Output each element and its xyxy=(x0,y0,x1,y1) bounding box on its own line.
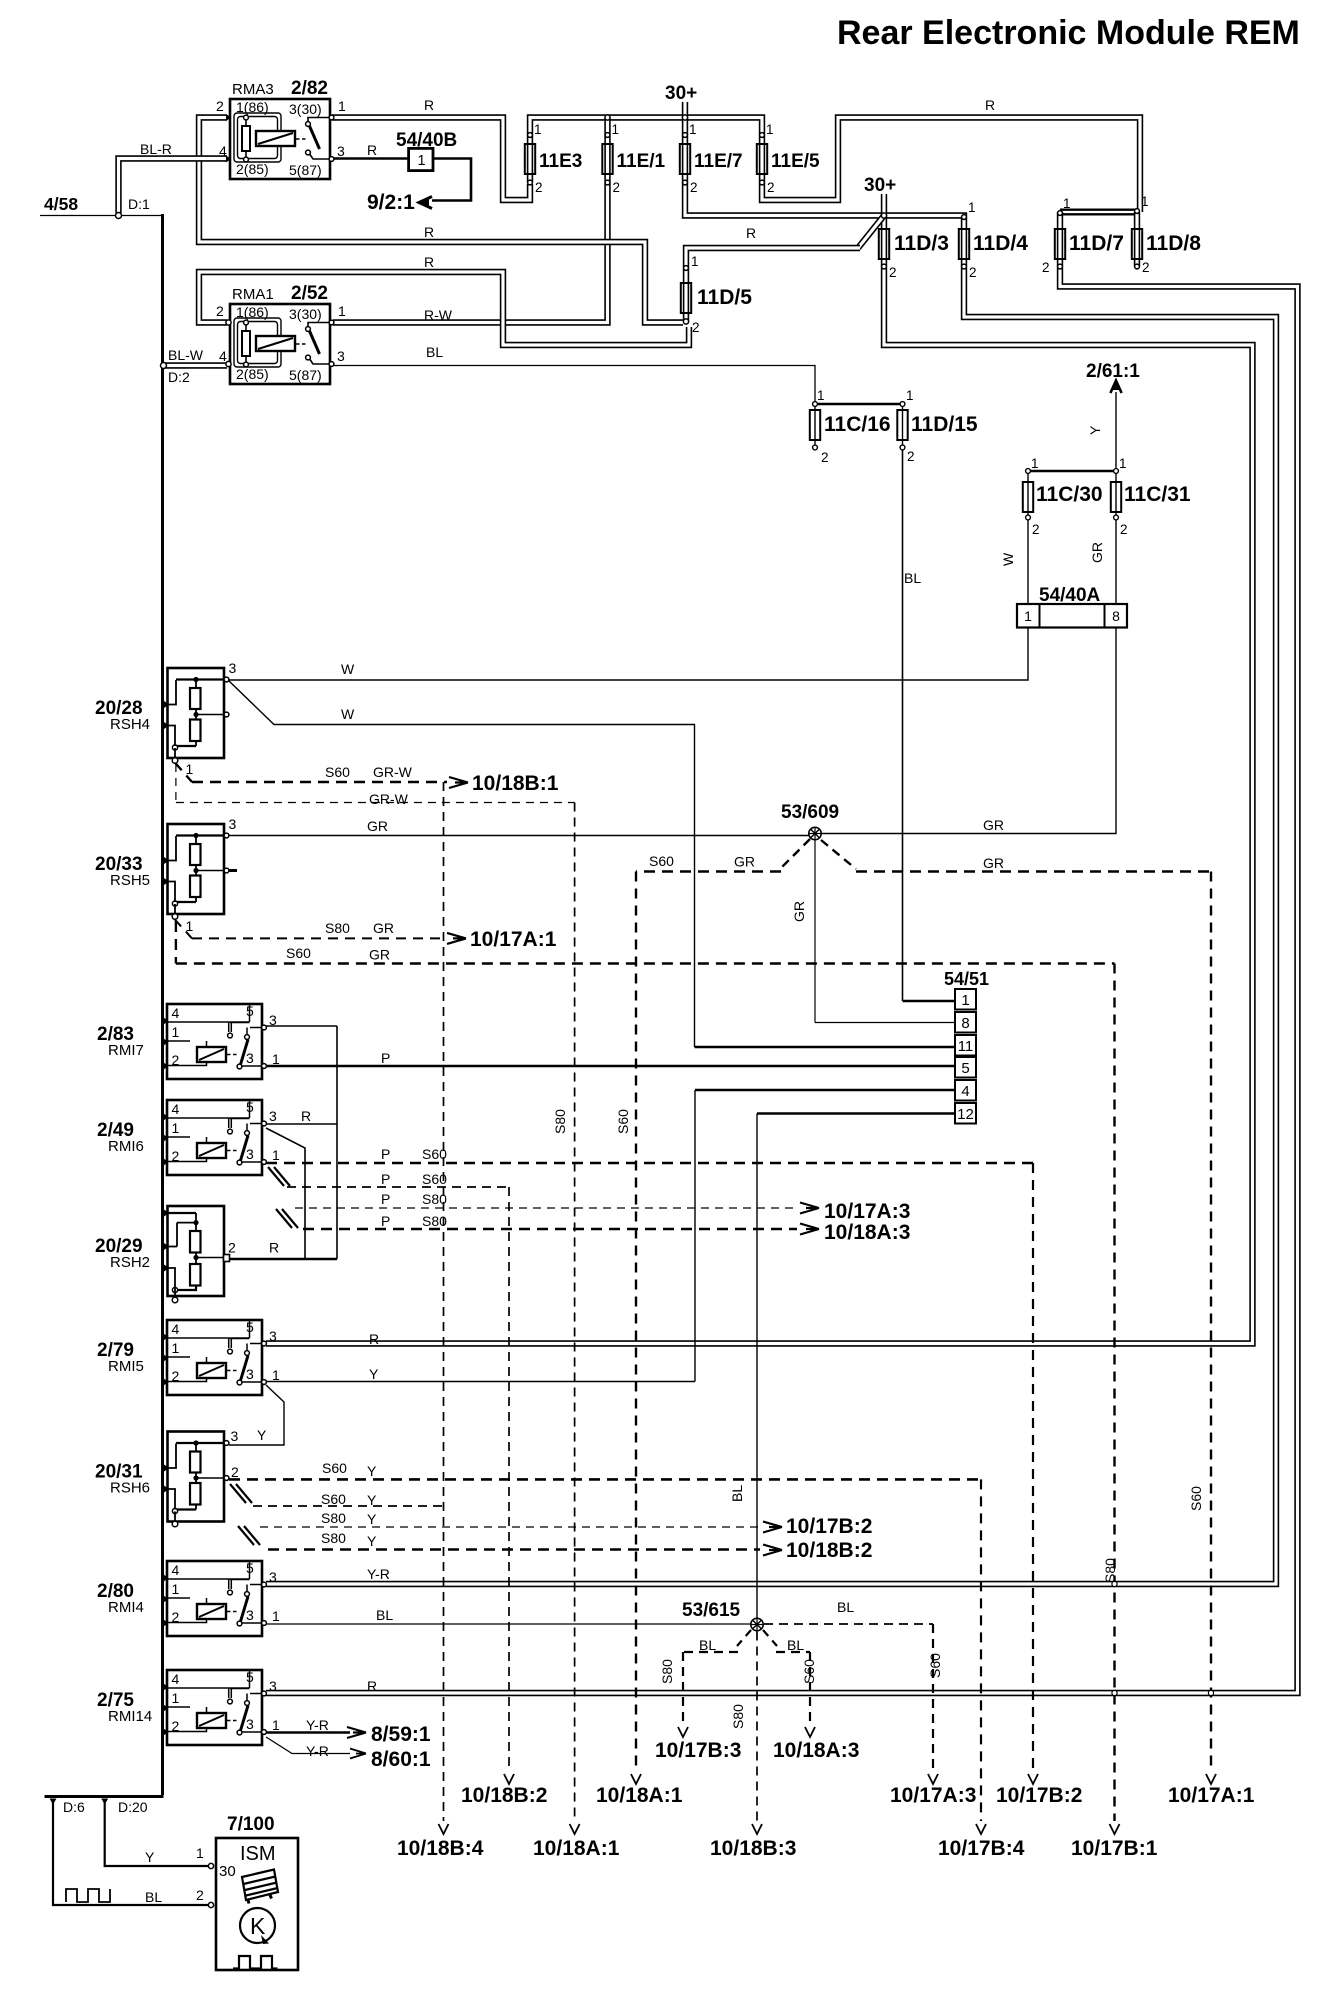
svg-text:3: 3 xyxy=(337,348,345,364)
wire stub 30+ no.2 xyxy=(881,194,887,216)
wire through fuse 11C/30 xyxy=(1027,471,1029,518)
arrow 10/18A:3 bottom xyxy=(805,1727,815,1737)
svg-text:1: 1 xyxy=(172,1581,180,1597)
svg-text:1: 1 xyxy=(338,303,346,319)
svg-text:2: 2 xyxy=(172,1368,180,1384)
svg-text:S60: S60 xyxy=(286,945,311,961)
svg-text:10/18A:1: 10/18A:1 xyxy=(596,1784,683,1807)
svg-text:1: 1 xyxy=(172,1120,180,1136)
svg-text:GR: GR xyxy=(983,817,1004,833)
svg-text:4/58: 4/58 xyxy=(44,194,78,214)
wire S60 Y dashed: switch RSH6 pin2 row to 10/17B:4 xyxy=(229,1478,981,1481)
wire W: fuse 11C/30 pin2 to connector 54/40A pin1 xyxy=(1027,520,1029,604)
svg-text:1: 1 xyxy=(968,200,976,215)
dashed vertical to 10/18A:1 bottom xyxy=(574,803,576,1822)
branch hash marks at relay 2/49 pin1 xyxy=(268,1167,284,1186)
svg-text:RSH5: RSH5 xyxy=(110,872,150,889)
branch hash marks at switch RSH6 pin2 xyxy=(230,1484,246,1503)
svg-text:2/61:1: 2/61:1 xyxy=(1086,361,1140,382)
svg-text:3: 3 xyxy=(231,1428,239,1444)
svg-text:BL: BL xyxy=(837,1599,854,1615)
svg-text:2: 2 xyxy=(535,180,543,195)
svg-text:2: 2 xyxy=(1120,522,1128,537)
svg-text:3: 3 xyxy=(246,1146,254,1162)
svg-text:RMI6: RMI6 xyxy=(108,1138,144,1155)
svg-text:11E/1: 11E/1 xyxy=(617,151,666,172)
svg-text:BL: BL xyxy=(699,1637,716,1653)
svg-text:1: 1 xyxy=(1141,194,1149,209)
junction 53/609 xyxy=(809,827,821,839)
svg-text:10/18A:1: 10/18A:1 xyxy=(533,1837,620,1860)
arrow 10/17A:1 mid xyxy=(447,933,466,944)
wire through fuse 11E/5 xyxy=(759,136,765,183)
wire R: fuse 11D/5 pin2 to relay 2/82 pin2 coil xyxy=(199,118,683,323)
wire R: fuse 11E/5 pin2 loop to fuse 11D/8 pin1 xyxy=(762,118,1140,213)
svg-text:4: 4 xyxy=(172,1321,180,1337)
dashed vertical S60 to 10/17A:3 xyxy=(932,1624,934,1771)
wire through fuse 11C/16 xyxy=(814,404,816,445)
wire: connector 54/40B pin1 to 9/2:1 xyxy=(432,159,471,201)
svg-text:54/51: 54/51 xyxy=(944,969,989,989)
svg-text:1: 1 xyxy=(1063,196,1071,211)
node D:20 xyxy=(101,1799,108,1805)
wire BL-R: module 4/58 D:1 to relay 2/82 pin4 xyxy=(119,159,228,214)
svg-text:1: 1 xyxy=(172,1024,180,1040)
wire 30+ bus feeding fuses 11E3 11E/1 11E/7 11E/5 xyxy=(530,118,762,137)
svg-text:4: 4 xyxy=(172,1562,180,1578)
dashed vertical S60 to 10/18A:1 xyxy=(635,872,637,1772)
wire P S80 dashed: relay 2/49 row4 to 10/18A:3 xyxy=(303,1228,797,1231)
svg-text:S80: S80 xyxy=(422,1213,447,1229)
wire GR dashed: junction 53/609 right branch to 10/17A:1 xyxy=(821,840,856,869)
svg-text:RMI5: RMI5 xyxy=(108,1358,144,1375)
wire stub 30+ no.1 xyxy=(682,102,688,118)
svg-text:3(30): 3(30) xyxy=(289,101,322,117)
wire stub 11E/7 pin1 to bus xyxy=(682,118,688,137)
svg-text:P: P xyxy=(381,1213,390,1229)
module ISM 7/100 xyxy=(216,1838,298,1970)
wire P: relay 2/83 pin1 to connector 54/51 pin5 xyxy=(266,1065,955,1068)
svg-text:S80: S80 xyxy=(552,1109,568,1134)
dashed vertical S80 to 10/17B:1 xyxy=(1113,964,1115,1822)
ISM K symbol xyxy=(240,1908,275,1943)
svg-text:3: 3 xyxy=(269,1012,277,1028)
ISM bus icon xyxy=(242,1870,278,1904)
node D:6 xyxy=(52,1799,54,1801)
svg-text:4: 4 xyxy=(219,348,227,364)
svg-text:GR-W: GR-W xyxy=(369,791,409,807)
wire S60 GR dashed: junction 53/609 left branch xyxy=(781,839,810,868)
svg-text:8/60:1: 8/60:1 xyxy=(371,1748,431,1771)
wire: module 4/58 line at D:1 xyxy=(40,215,163,217)
svg-text:3: 3 xyxy=(246,1366,254,1382)
svg-text:2: 2 xyxy=(231,1464,239,1480)
svg-text:10/17B:3: 10/17B:3 xyxy=(655,1739,741,1762)
ISM square wave symbol xyxy=(233,1956,278,1969)
svg-text:3: 3 xyxy=(246,1607,254,1623)
svg-text:R: R xyxy=(369,1331,379,1347)
svg-text:BL: BL xyxy=(787,1637,804,1653)
square wave symbol on BL wire xyxy=(66,1889,110,1902)
svg-text:8/59:1: 8/59:1 xyxy=(371,1723,431,1746)
svg-text:5: 5 xyxy=(961,1060,969,1077)
svg-text:3: 3 xyxy=(269,1108,277,1124)
svg-text:R: R xyxy=(424,97,434,113)
fuse 11D/3 xyxy=(879,229,889,259)
svg-text:2(85): 2(85) xyxy=(236,161,269,177)
svg-text:10/17A:1: 10/17A:1 xyxy=(470,928,557,951)
wire R: fuse 11D/3 pin2 to relay 2/79 pin3 xyxy=(266,267,1253,1344)
wire bus 11C/16 pin1 - 11D/15 pin1 xyxy=(815,403,903,406)
svg-text:2/52: 2/52 xyxy=(291,283,328,304)
dashed vertical S60 to 10/18A:3 xyxy=(809,1652,811,1724)
svg-text:Y: Y xyxy=(367,1492,377,1508)
wire through fuse 11C/31 xyxy=(1115,471,1117,518)
wire through fuse 11D/8 xyxy=(1134,212,1140,267)
svg-text:1: 1 xyxy=(1031,456,1039,471)
svg-text:S60: S60 xyxy=(1188,1486,1204,1511)
svg-text:11D/8: 11D/8 xyxy=(1146,232,1201,255)
svg-text:Rear Electronic Module REM: Rear Electronic Module REM xyxy=(837,14,1300,52)
node D:1 xyxy=(116,213,122,219)
svg-text:P: P xyxy=(381,1146,390,1162)
svg-text:S80: S80 xyxy=(1102,1558,1118,1583)
wire through fuse 11E3 xyxy=(527,136,533,183)
svg-text:2/82: 2/82 xyxy=(291,78,328,99)
svg-text:11: 11 xyxy=(958,1038,974,1055)
wire BL: connector 54/51 pin12 down to junction 53/615 xyxy=(756,1114,758,1619)
wire BL dashed: junction 53/615 left to 10/17B:3 xyxy=(737,1630,751,1646)
svg-text:RMI4: RMI4 xyxy=(108,1599,144,1616)
wire through fuse 11D/3 xyxy=(881,216,887,267)
svg-text:3: 3 xyxy=(229,816,237,832)
wire P S80 dashed: relay 2/49 row3 to 10/17A:3 xyxy=(295,1207,797,1209)
wire S60 GR dashed: switch RSH5 to 10/17B:1 xyxy=(175,921,177,964)
svg-text:BL: BL xyxy=(904,570,921,586)
svg-text:R: R xyxy=(985,97,995,113)
svg-text:1: 1 xyxy=(272,1608,280,1624)
relay 2/52 RMA1 xyxy=(230,304,330,384)
svg-text:S80: S80 xyxy=(325,920,350,936)
svg-text:R-W: R-W xyxy=(424,307,453,323)
wire Y: 2/61:1 to fuse bus 11C/30 11C/31 xyxy=(1115,392,1117,471)
svg-text:5: 5 xyxy=(246,1560,254,1576)
svg-text:10/18B:4: 10/18B:4 xyxy=(397,1837,484,1860)
svg-text:1: 1 xyxy=(817,388,825,403)
svg-text:10/18A:3: 10/18A:3 xyxy=(824,1221,910,1244)
wire GR: switch RSH5 pin3 to junction 53/609 xyxy=(229,835,809,837)
arrow 8/59:1 xyxy=(347,1727,366,1738)
fuse 11E/1 xyxy=(602,144,612,174)
wire: fuse 11E/7 pin2 to 30+ junction and fuse 11D/4 pin1 xyxy=(685,183,964,230)
svg-text:10/17B:1: 10/17B:1 xyxy=(1071,1837,1158,1860)
wire Y-R: relay 2/75 pin1 to 8/59:1 xyxy=(266,1731,350,1734)
wire through fuse 11D/15 xyxy=(902,404,904,445)
dashed vertical to 10/17B:2 bottom xyxy=(1032,1163,1034,1771)
svg-text:1: 1 xyxy=(906,388,914,403)
svg-text:GR: GR xyxy=(734,854,755,870)
svg-text:53/609: 53/609 xyxy=(781,802,839,823)
svg-text:2: 2 xyxy=(767,180,775,195)
svg-text:1: 1 xyxy=(186,918,194,934)
svg-text:Y: Y xyxy=(145,1849,155,1865)
svg-text:5: 5 xyxy=(246,1669,254,1685)
svg-text:D:20: D:20 xyxy=(118,1799,148,1815)
relay 2/83 RMI7 xyxy=(167,1004,262,1079)
arrow 10/17A:3 mid xyxy=(800,1203,819,1214)
fuse 11C/16 xyxy=(810,410,820,440)
arrow 2/61:1 xyxy=(1110,381,1121,394)
svg-text:5: 5 xyxy=(246,1319,254,1335)
arrow 8/60:1 xyxy=(350,1749,366,1759)
svg-text:11C/31: 11C/31 xyxy=(1124,483,1191,506)
svg-text:S60: S60 xyxy=(615,1109,631,1134)
svg-text:S60: S60 xyxy=(321,1491,346,1507)
wire S80 Y dashed: RSH6 row4 to 10/18B:2 xyxy=(268,1548,760,1551)
svg-text:2: 2 xyxy=(1032,522,1040,537)
switch 20/28 RSH4 xyxy=(168,668,225,758)
junction crossing dots xyxy=(1112,1581,1117,1586)
svg-text:1(86): 1(86) xyxy=(236,304,269,320)
wire BL: relay 2/52 pin3 to fuse 11C/16 pin1 xyxy=(333,366,815,403)
wire bus 11D/7 pin1 - 11D/8 pin1 xyxy=(1060,209,1137,216)
svg-text:11D/5: 11D/5 xyxy=(697,286,752,309)
svg-text:3: 3 xyxy=(337,143,345,159)
svg-text:11D/15: 11D/15 xyxy=(911,413,978,436)
svg-text:1: 1 xyxy=(272,1717,280,1733)
wire GR-W dashed: RSH4 to 10/18A:1 drop xyxy=(175,764,177,803)
wire BL: relay 2/80 pin1 to junction 53/615 xyxy=(266,1623,751,1625)
svg-text:K: K xyxy=(250,1913,266,1939)
switch 20/31 RSH6 xyxy=(168,1432,225,1522)
svg-text:2: 2 xyxy=(172,1718,180,1734)
svg-text:2: 2 xyxy=(889,265,897,280)
svg-text:12: 12 xyxy=(957,1106,974,1123)
wire GR: fuse 11C/31 pin2 to connector 54/40A pin8 xyxy=(1115,520,1117,604)
svg-text:3: 3 xyxy=(269,1569,277,1585)
wire BL S60 dashed: junction 53/615 to 10/17A:3 xyxy=(764,1623,933,1625)
wire: connector 54/51 pin4 down to Y wire xyxy=(695,1089,955,1092)
wire through fuse 11D/7 xyxy=(1057,212,1063,267)
relay 2/82 RMA3 xyxy=(230,99,330,179)
wire S80 GR dashed: switch RSH5 pin1 to 10/17A:1 xyxy=(174,919,192,938)
wire GR: connector 54/40A pin8 to junction 53/609 xyxy=(821,628,1116,834)
svg-text:Y: Y xyxy=(369,1366,379,1382)
svg-text:30+: 30+ xyxy=(665,83,697,104)
svg-text:S60: S60 xyxy=(422,1171,447,1187)
svg-text:1(86): 1(86) xyxy=(236,99,269,115)
svg-text:1: 1 xyxy=(612,122,620,137)
svg-text:11E3: 11E3 xyxy=(539,151,582,172)
fuse 11D/15 xyxy=(897,410,907,440)
svg-text:10/17B:4: 10/17B:4 xyxy=(938,1837,1025,1860)
svg-text:54/40B: 54/40B xyxy=(396,130,457,151)
svg-text:1: 1 xyxy=(338,98,346,114)
svg-text:30: 30 xyxy=(219,1863,236,1880)
svg-text:2: 2 xyxy=(196,1887,204,1903)
fuse 11C/30 xyxy=(1023,482,1033,512)
svg-text:S60: S60 xyxy=(927,1653,943,1678)
bus junction circles xyxy=(605,115,610,120)
module 4/58 main bus line xyxy=(161,214,164,1795)
connector 54/40B xyxy=(409,148,433,170)
fuse 11E/7 xyxy=(680,144,690,174)
fuse 11D/4 xyxy=(959,229,969,259)
arrow 10/18B:2 mid xyxy=(763,1545,782,1556)
fuse 11C/31 xyxy=(1111,482,1121,512)
svg-text:10/18B:2: 10/18B:2 xyxy=(461,1784,547,1807)
svg-text:BL-W: BL-W xyxy=(168,347,204,363)
wire R: node to relay 2/49 pin3 xyxy=(336,1026,338,1259)
svg-text:2: 2 xyxy=(216,303,224,319)
svg-text:Y-R: Y-R xyxy=(306,1717,329,1733)
wire S80 Y dashed: RSH6 row3 to 10/17B:2 xyxy=(260,1526,760,1528)
wire Y-R: relay 2/75 pin1 to 8/60:1 xyxy=(266,1737,350,1754)
fuse 11E/5 xyxy=(757,144,767,174)
svg-text:3: 3 xyxy=(269,1328,277,1344)
svg-text:BL: BL xyxy=(376,1607,393,1623)
svg-text:BL-R: BL-R xyxy=(140,141,172,157)
svg-text:10/18B:2: 10/18B:2 xyxy=(786,1539,872,1562)
svg-text:S80: S80 xyxy=(659,1659,675,1684)
svg-text:R: R xyxy=(424,224,434,240)
svg-text:S80: S80 xyxy=(422,1191,447,1207)
svg-text:S60: S60 xyxy=(649,853,674,869)
svg-text:11C/16: 11C/16 xyxy=(824,413,891,436)
wire stub 11E/1 pin1 to bus xyxy=(604,118,610,137)
svg-text:RMI14: RMI14 xyxy=(108,1708,152,1725)
svg-text:D:1: D:1 xyxy=(128,196,150,212)
svg-text:11D/7: 11D/7 xyxy=(1069,232,1124,255)
svg-text:4: 4 xyxy=(961,1083,969,1100)
svg-text:11C/30: 11C/30 xyxy=(1036,483,1103,506)
svg-text:10/18B:1: 10/18B:1 xyxy=(472,772,559,795)
wire R: relay 2/49 pin3 branch to switch RSH2 pin2 xyxy=(266,1128,305,1259)
wire P S60 dashed: relay 2/49 row2 to 10/18B:2 xyxy=(287,1186,509,1188)
wire GR: junction 53/609 to connector 54/51 pin8 xyxy=(814,840,816,1023)
svg-text:4: 4 xyxy=(172,1101,180,1117)
svg-text:1: 1 xyxy=(172,1340,180,1356)
wire through fuse 11D/4 xyxy=(961,229,967,267)
svg-text:2: 2 xyxy=(613,180,621,195)
fuse 11D/5 xyxy=(681,283,691,313)
svg-text:2: 2 xyxy=(172,1052,180,1068)
svg-text:P: P xyxy=(381,1050,390,1066)
bottom arrows row A xyxy=(504,1774,514,1784)
svg-text:3: 3 xyxy=(269,1678,277,1694)
svg-text:11E/5: 11E/5 xyxy=(771,151,820,172)
wire BL: fuse 11D/15 pin2 to connector 54/51 pin1 xyxy=(902,449,904,1001)
svg-text:Y-R: Y-R xyxy=(306,1743,329,1759)
svg-text:Y: Y xyxy=(367,1533,377,1549)
wire R: 30+ junction diagonal to fuse 11D/5 pin1 xyxy=(858,216,884,249)
wire W: switch RSH4 pin3 to connector 54/51 pin11 xyxy=(229,681,695,1047)
svg-text:GR: GR xyxy=(1089,542,1105,563)
wire Y: relay 2/79 pin1 to connector 54/51 pin4 xyxy=(266,1381,695,1383)
connector 54/40A xyxy=(1017,604,1127,628)
svg-text:10/17A:3: 10/17A:3 xyxy=(824,1200,910,1223)
module 4/58 bottom rail D:6 D:20 xyxy=(45,1795,164,1798)
svg-text:2: 2 xyxy=(216,98,224,114)
svg-text:W: W xyxy=(341,706,355,722)
svg-text:RSH4: RSH4 xyxy=(110,716,150,733)
wire R: relay 2/82 pin1 to fuse 11E3 pin2 xyxy=(332,118,530,201)
dashed vertical to 10/18B:4 xyxy=(443,782,445,1821)
wire W: connector 54/40A pin1 to switch RSH4 pin3 xyxy=(229,628,1028,681)
svg-text:W: W xyxy=(341,661,355,677)
arrow 10/17B:3 xyxy=(678,1727,688,1737)
svg-text:2: 2 xyxy=(172,1609,180,1625)
svg-text:11D/3: 11D/3 xyxy=(894,232,949,255)
svg-text:3: 3 xyxy=(246,1050,254,1066)
svg-text:2: 2 xyxy=(1042,260,1050,275)
svg-text:1: 1 xyxy=(1024,608,1032,624)
svg-text:GR: GR xyxy=(367,818,388,834)
arrow to 9/2:1 xyxy=(419,197,432,209)
svg-text:RMA3: RMA3 xyxy=(232,81,274,98)
wire through fuse 11E/7 xyxy=(682,136,688,183)
svg-text:9/2:1: 9/2:1 xyxy=(367,191,415,214)
wire: connector 54/51 pin12 to junction 53/615 xyxy=(757,1112,955,1115)
dashed vertical to 10/18B:2 xyxy=(508,1187,510,1771)
svg-text:1: 1 xyxy=(689,122,697,137)
bottom arrows row B xyxy=(439,1824,449,1834)
svg-text:10/18A:3: 10/18A:3 xyxy=(773,1739,859,1762)
svg-text:RMI7: RMI7 xyxy=(108,1042,144,1059)
svg-text:10/17B:2: 10/17B:2 xyxy=(786,1515,872,1538)
svg-text:10/18B:3: 10/18B:3 xyxy=(710,1837,796,1860)
wire P S60 dashed: relay 2/49 pin1 row to 10/17B:2 xyxy=(266,1162,1033,1165)
svg-text:GR: GR xyxy=(373,920,394,936)
svg-text:ISM: ISM xyxy=(240,1843,276,1865)
switch RSH5 pin2 stub xyxy=(229,869,237,872)
svg-text:10/17A:3: 10/17A:3 xyxy=(890,1784,976,1807)
svg-text:1: 1 xyxy=(186,761,194,777)
svg-text:30+: 30+ xyxy=(864,175,896,196)
svg-text:S60: S60 xyxy=(325,764,350,780)
svg-text:RSH2: RSH2 xyxy=(110,1254,150,1271)
svg-text:S60: S60 xyxy=(801,1659,817,1684)
svg-text:GR-W: GR-W xyxy=(373,764,413,780)
wire R: relay 2/82 pin3 to connector 54/40B xyxy=(333,157,409,160)
svg-text:D:2: D:2 xyxy=(168,369,190,385)
svg-text:1: 1 xyxy=(417,153,425,169)
svg-text:5: 5 xyxy=(246,1099,254,1115)
svg-text:4: 4 xyxy=(172,1005,180,1021)
arrow 10/18A:3 mid xyxy=(800,1224,819,1235)
svg-text:S80: S80 xyxy=(321,1510,346,1526)
svg-text:Y: Y xyxy=(1087,425,1103,435)
svg-text:2: 2 xyxy=(969,265,977,280)
svg-text:3: 3 xyxy=(229,660,237,676)
arrow 10/17B:2 mid xyxy=(763,1522,782,1533)
svg-text:S60: S60 xyxy=(422,1146,447,1162)
svg-text:2: 2 xyxy=(172,1148,180,1164)
svg-text:7/100: 7/100 xyxy=(227,1814,275,1835)
svg-text:5(87): 5(87) xyxy=(289,367,322,383)
svg-text:2: 2 xyxy=(228,1240,236,1256)
svg-text:Y: Y xyxy=(367,1463,377,1479)
fuse 11D/7 xyxy=(1055,229,1065,259)
svg-text:1: 1 xyxy=(196,1845,204,1861)
svg-text:GR: GR xyxy=(369,947,390,963)
svg-text:RSH6: RSH6 xyxy=(110,1480,150,1497)
fuse 11D/8 xyxy=(1132,229,1142,259)
relay 2/80 RMI4 xyxy=(167,1561,262,1636)
relay 2/49 RMI6 xyxy=(167,1100,262,1175)
svg-text:2(85): 2(85) xyxy=(236,366,269,382)
svg-text:S80: S80 xyxy=(730,1704,746,1729)
